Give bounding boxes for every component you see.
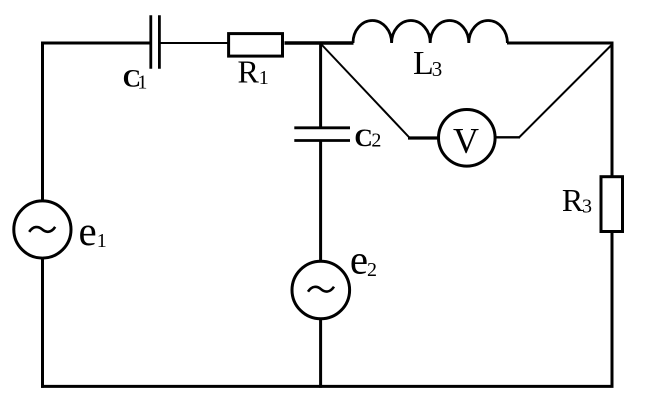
svg-text:R: R	[562, 182, 584, 218]
svg-text:1: 1	[97, 230, 107, 252]
svg-text:2: 2	[367, 259, 377, 281]
svg-text:1: 1	[137, 72, 147, 94]
svg-text:3: 3	[582, 196, 592, 218]
svg-text:e: e	[79, 208, 97, 254]
svg-text:e: e	[350, 237, 368, 283]
svg-text:L: L	[413, 45, 434, 82]
svg-text:3: 3	[432, 57, 443, 81]
svg-text:V: V	[453, 121, 479, 161]
svg-text:1: 1	[259, 67, 269, 89]
svg-text:2: 2	[371, 129, 381, 151]
svg-text:R: R	[238, 53, 260, 89]
svg-text:C: C	[354, 123, 372, 152]
